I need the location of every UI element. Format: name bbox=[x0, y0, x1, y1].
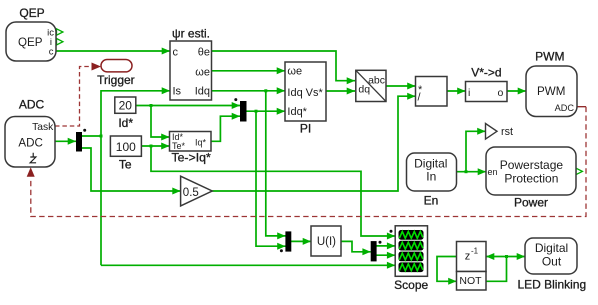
wire 20 to mux2 and Id* bbox=[136, 106, 240, 138]
mux bar2 (Id*,Iq* to Idq*) bbox=[240, 101, 247, 122]
svg-text:Powerstage: Powerstage bbox=[500, 158, 564, 172]
svg-text:ωe: ωe bbox=[195, 66, 210, 78]
svg-text:20: 20 bbox=[119, 99, 133, 113]
svg-text:Power: Power bbox=[514, 196, 548, 210]
svg-text:Digital: Digital bbox=[535, 241, 568, 255]
svg-text:Scope: Scope bbox=[394, 278, 428, 292]
svg-text:Idq*: Idq* bbox=[287, 106, 307, 118]
wire divide to V*->d bbox=[447, 90, 466, 92]
block dq->abc bbox=[356, 70, 386, 101]
event wire: PWM ADC to ADC trigger (dashed dark red) bbox=[31, 107, 586, 217]
svg-text:Idq: Idq bbox=[287, 87, 302, 99]
goto rst bbox=[486, 124, 514, 140]
svg-text:ADC: ADC bbox=[18, 137, 42, 150]
arrowhead ADC event (pointing up) bbox=[27, 167, 35, 177]
svg-text:z: z bbox=[465, 251, 471, 263]
block Scope bbox=[390, 226, 428, 276]
svg-text:Digital: Digital bbox=[414, 157, 447, 171]
svg-text:V*->d: V*->d bbox=[471, 66, 501, 80]
gain 0.5 bbox=[181, 176, 213, 206]
wire Idq: psi-esti to PI and to mux3 bbox=[212, 91, 286, 236]
wire omega-e: psi-esti to PI bbox=[212, 70, 286, 72]
block Digital Out bbox=[525, 238, 577, 274]
svg-text:ADC: ADC bbox=[19, 97, 45, 111]
svg-text:Is: Is bbox=[173, 86, 182, 98]
svg-text:Id*: Id* bbox=[118, 116, 133, 130]
svg-text:ψr esti.: ψr esti. bbox=[172, 27, 210, 41]
block U(I) bbox=[311, 226, 341, 256]
wire Vs*: PI to dq/abc bbox=[326, 90, 355, 92]
wire V*->d to PWM bbox=[507, 90, 526, 92]
junction: 100 output node bbox=[150, 145, 153, 148]
block V*->d bbox=[466, 82, 508, 102]
svg-text:Iq*: Iq* bbox=[195, 138, 207, 148]
block Trigger (event clock) bbox=[101, 60, 132, 72]
svg-text:Trigger: Trigger bbox=[97, 73, 135, 87]
wire ADC out to demux bar1 bbox=[55, 140, 76, 142]
svg-text:-1: -1 bbox=[471, 247, 479, 256]
unconnected output port Powerstage out bbox=[576, 168, 582, 174]
wire 100 to Te* and scope ch1 bbox=[142, 146, 396, 236]
unconnected output port QEP.i bbox=[57, 39, 63, 45]
wire mux3 to U(I) bbox=[291, 240, 311, 242]
wire z-1 to NOT feedback loop bbox=[437, 257, 525, 282]
svg-text:Idq: Idq bbox=[195, 86, 210, 98]
block multiply/divide bbox=[416, 77, 448, 107]
block ADC bbox=[5, 117, 55, 168]
svg-text:En: En bbox=[424, 194, 439, 208]
svg-text:PWM: PWM bbox=[537, 85, 565, 98]
unconnected output port QEP.ic bbox=[57, 29, 63, 35]
port-1 dot of bar4 bbox=[379, 241, 382, 244]
block psi-r estimator bbox=[170, 41, 212, 100]
svg-text:In: In bbox=[426, 170, 436, 184]
block QEP bbox=[6, 22, 56, 61]
green arrowheads bbox=[68, 48, 526, 285]
svg-text:rst: rst bbox=[501, 126, 513, 138]
svg-text:θe: θe bbox=[198, 47, 210, 59]
wire dq/abc to divide bbox=[386, 85, 416, 87]
svg-text:Task: Task bbox=[32, 122, 54, 133]
svg-text:dq: dq bbox=[358, 84, 370, 96]
junction: LED feedback node bbox=[505, 255, 508, 258]
junction: Idq* node bbox=[255, 110, 258, 113]
demux bar1 (ADC split) bbox=[76, 132, 82, 152]
svg-text:0.5: 0.5 bbox=[183, 187, 199, 199]
svg-text:ADC: ADC bbox=[555, 103, 575, 113]
svg-text:ωe: ωe bbox=[287, 66, 302, 78]
wire Vdc: bar1 to 0.5 gain bbox=[82, 148, 181, 191]
wire U(I) to demux4 bbox=[341, 241, 371, 251]
junction: Idq node bbox=[264, 89, 267, 92]
port-1 dot of bar1 bbox=[83, 129, 86, 132]
block constant 20 bbox=[115, 97, 136, 113]
svg-text:Protection: Protection bbox=[504, 172, 558, 186]
svg-text:PWM: PWM bbox=[535, 50, 564, 64]
wire demux4 to scope ch2 ch3 bbox=[377, 246, 396, 255]
svg-text:QEP: QEP bbox=[18, 36, 43, 49]
svg-text:i: i bbox=[468, 87, 470, 99]
junction: 20 output node bbox=[150, 104, 153, 107]
event wire: ADC Task to Trigger (dashed dark red) bbox=[55, 67, 92, 127]
svg-text:100: 100 bbox=[116, 140, 136, 154]
block PI bbox=[285, 62, 326, 121]
svg-text:Te*: Te* bbox=[172, 141, 186, 151]
block constant 100 bbox=[110, 136, 141, 156]
junction: Is node bbox=[100, 135, 103, 138]
svg-text:c: c bbox=[173, 46, 179, 58]
svg-text:en: en bbox=[488, 167, 498, 177]
block Te->Iq* bbox=[170, 132, 212, 152]
svg-text:c: c bbox=[49, 47, 54, 58]
svg-text:PI: PI bbox=[300, 122, 311, 136]
svg-text:Te: Te bbox=[119, 158, 132, 172]
wire Digital In to en and rst bbox=[457, 131, 487, 171]
svg-text:QEP: QEP bbox=[19, 6, 44, 20]
block NOT bbox=[457, 272, 487, 291]
block Digital In bbox=[407, 153, 457, 191]
port-1 dot of bar2 bbox=[234, 98, 237, 101]
wire QEP.c to psi-esti.c bbox=[56, 50, 170, 52]
block Powerstage Protection bbox=[486, 147, 576, 195]
wire 0.5 gain to divide bbox=[212, 96, 415, 191]
svg-text:U(I): U(I) bbox=[317, 236, 336, 248]
svg-text:o: o bbox=[497, 87, 503, 99]
svg-text:LED Blinking: LED Blinking bbox=[517, 278, 586, 292]
junction: En node bbox=[465, 170, 468, 173]
wire Iq* to mux2 bbox=[211, 116, 240, 141]
wire theta-e: psi-esti to dq/abc bbox=[212, 51, 356, 81]
svg-text:Te->Iq*: Te->Iq* bbox=[171, 151, 211, 165]
mux bar3 (Idq,Idq* to U(I)) bbox=[285, 231, 291, 251]
svg-text:Out: Out bbox=[542, 255, 562, 269]
block PWM bbox=[526, 66, 577, 117]
svg-text:abc: abc bbox=[368, 75, 385, 87]
block z^-1 bbox=[457, 242, 487, 272]
svg-text:NOT: NOT bbox=[459, 275, 482, 287]
arrowhead trigger bbox=[92, 63, 102, 71]
port-1 dot of bar3 bbox=[280, 249, 283, 252]
demux bar4 (U(I) split to scope) bbox=[371, 241, 377, 261]
wire Idq* : mux2 to PI and mux3 bbox=[247, 111, 286, 246]
svg-text:Vs*: Vs* bbox=[306, 87, 324, 99]
wire Is: bar1 to psi-esti and down to scope ch4 bbox=[82, 91, 395, 265]
